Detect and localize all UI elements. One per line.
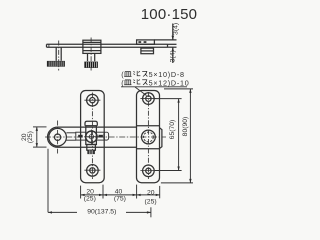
svg-text:20: 20 bbox=[147, 189, 155, 196]
svg-text:80(90): 80(90) bbox=[182, 117, 189, 137]
svg-text:5×12)D-10: 5×12)D-10 bbox=[149, 79, 190, 88]
svg-text:100·150: 100·150 bbox=[141, 6, 197, 23]
svg-text:(75): (75) bbox=[114, 195, 126, 202]
svg-text:3(4): 3(4) bbox=[169, 50, 176, 62]
svg-text:(25): (25) bbox=[145, 198, 157, 205]
svg-text:65(70): 65(70) bbox=[169, 120, 176, 140]
svg-text:90(137.5): 90(137.5) bbox=[87, 209, 116, 216]
svg-text:(25): (25) bbox=[27, 131, 34, 143]
svg-text:3(4): 3(4) bbox=[173, 23, 180, 35]
svg-text:40: 40 bbox=[115, 188, 123, 195]
svg-text:(25): (25) bbox=[84, 195, 96, 202]
svg-text:20: 20 bbox=[86, 188, 94, 195]
